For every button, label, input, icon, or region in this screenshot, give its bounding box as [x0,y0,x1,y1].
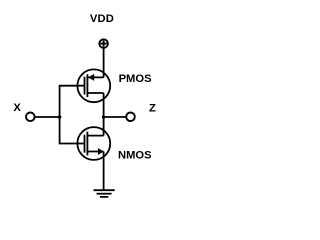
terminal Z [126,113,135,122]
wire PMOS drain to NMOS drain (output net) [103,93,105,136]
wire NMOS source to ground [103,152,105,191]
transistor NMOS [77,127,110,160]
VDD supply symbol [99,39,108,48]
ground [94,190,115,197]
wire NMOS gate [59,143,85,145]
wire VDD to PMOS source [103,49,105,78]
transistor PMOS [77,69,110,102]
wire PMOS gate [59,85,85,87]
junction output node [102,115,106,119]
terminal X [26,113,35,122]
svg-text:NMOS: NMOS [118,150,152,162]
svg-text:VDD: VDD [90,13,114,25]
wire gate bus (vertical) [59,86,61,144]
wire output node to Z terminal [104,116,127,118]
svg-text:PMOS: PMOS [119,73,152,85]
wire X terminal to gate bus [35,116,60,118]
junction input node [58,115,62,119]
svg-text:Z: Z [149,103,156,115]
svg-text:X: X [13,102,21,114]
